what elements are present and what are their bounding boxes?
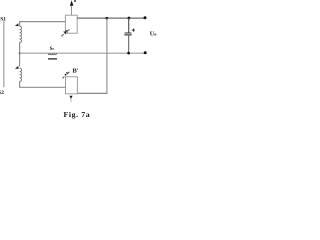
wire: winding axis to centre tap [19,42,21,66]
transformer winding N2 (bottom) [20,68,22,81]
node: centre tap junction [19,52,21,54]
capacitor C lower lead [128,35,130,53]
switch B' gate arrow (bottom) [69,96,72,99]
node: junction dot top wire / capacitor branch [128,17,131,20]
capacitor + polarity mark [132,29,135,32]
wire: left supply line S1-S2 [3,20,5,87]
node: output terminal + [144,16,147,19]
wire: right leg of B branch up to top wire [106,18,108,93]
switch A' box [65,15,77,33]
wire: output of B [77,92,107,94]
node: junction dot top wire / bridge leg [105,17,108,20]
node: output terminal - [144,51,147,54]
svg-text:B': B' [73,68,79,75]
switch B' box [66,77,78,94]
wire: centre-tap return line [20,52,145,54]
saturable choke Sc core bar [48,58,57,60]
node: junction dot capacitor / return line [127,52,130,55]
wire: output of A to top-right terminal [77,17,145,19]
switch A' arrow label A' [70,0,74,6]
capacitor C branch upper lead [128,18,130,33]
diode of switch B (diagonal, upper-left corner) [62,72,69,79]
wire: top-left from transformer to switch A box [20,22,66,27]
winding N2 polarity arrow [15,66,19,69]
wire: bottom-left from winding to switch B box [20,81,66,87]
winding N1 polarity arrow [15,23,19,26]
transformer winding N1 (top) [20,26,22,42]
capacitor C plates [125,32,132,34]
svg-text:Fig. 7a: Fig. 7a [64,110,91,119]
svg-text:S2: S2 [0,90,4,96]
svg-text:Uo: Uo [150,31,157,37]
saturable choke Sc windings [48,53,56,55]
diode of switch A (diagonal, lower-left corner) [61,30,69,37]
switch A' gate lead [71,5,73,15]
